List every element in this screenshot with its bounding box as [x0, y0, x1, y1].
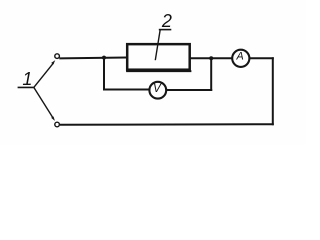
wire: bottom wire — [60, 123, 274, 126]
resistor box component 2 — [127, 44, 190, 70]
wire: voltmeter branch right vertical — [210, 58, 212, 91]
label 1 upper leader line — [34, 63, 54, 88]
label 1 lower leader line — [34, 87, 54, 118]
voltmeter V1 circle — [149, 82, 166, 99]
svg-text:2: 2 — [161, 11, 172, 31]
wire: top main wire from terminal to box — [59, 56, 126, 59]
wire: right vertical side — [272, 57, 274, 125]
node: right junction dot — [209, 56, 213, 60]
label 2 underline — [159, 29, 172, 31]
wire: voltmeter branch right horizontal — [166, 89, 212, 91]
wire: box right to ammeter — [190, 57, 232, 59]
svg-text:A: A — [235, 51, 243, 63]
wire: voltmeter branch left horizontal — [103, 89, 149, 91]
label 1 underline — [18, 86, 34, 88]
svg-text:1: 1 — [22, 69, 32, 89]
wire: ammeter right to top-right corner — [250, 57, 274, 59]
svg-text:V: V — [153, 82, 162, 95]
ammeter A1 circle — [232, 50, 249, 67]
node: left junction dot — [102, 56, 106, 60]
box bottom thick edge — [126, 70, 191, 72]
terminal: top-left open terminal — [55, 54, 60, 59]
terminal: bottom-left open terminal — [55, 122, 60, 127]
label 2 leader line into box — [155, 30, 160, 61]
wire: voltmeter branch left vertical — [103, 58, 105, 91]
label 1 lower leader arrowhead — [51, 116, 55, 121]
label 1 upper leader arrowhead — [51, 60, 55, 65]
